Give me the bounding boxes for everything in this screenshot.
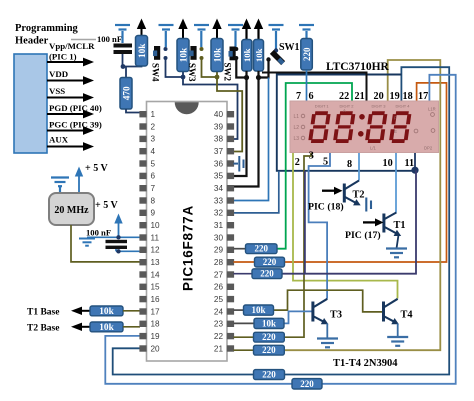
pin 30 [227,234,234,240]
svg-text:22: 22 [214,332,224,341]
svg-text:11: 11 [405,158,415,169]
svg-text:20: 20 [151,344,161,353]
resistor 10k chip pin24 [244,305,274,315]
svg-text:18: 18 [151,320,161,329]
pin 7 [139,185,146,191]
svg-text:220: 220 [262,332,276,342]
wire SW4 to pin38 [166,58,238,139]
pin 32 [227,210,234,216]
wire navy display pin11 stub [414,153,416,171]
svg-text:10k: 10k [242,48,252,62]
pin 10 [139,222,146,228]
wire resistor 220 chip pin28 left [234,261,255,263]
arrow +5V cap [118,222,120,237]
resistor R5 10k [242,40,252,72]
display LTC3710HR body [290,101,439,153]
pin 3 [139,136,146,142]
wire 10k1 bottom to node [123,66,142,67]
svg-text:16: 16 [151,295,161,304]
svg-text:T2: T2 [353,190,365,201]
wire olive 10k pin24 to T4 base [274,290,383,312]
svg-text:T3: T3 [330,310,342,321]
pin 12 [139,247,146,253]
pin 19 [139,333,146,339]
svg-text:28: 28 [214,258,224,267]
ground T4 [387,337,408,346]
svg-text:29: 29 [214,246,224,255]
svg-text:6: 6 [309,91,314,102]
svg-text:24: 24 [214,307,224,316]
svg-text:9: 9 [151,209,156,218]
pin 40 [227,111,234,117]
pin 9 [139,210,146,216]
svg-text:23: 23 [214,320,224,329]
pin 28 [227,259,234,265]
ground G2 SW4 [159,25,174,47]
svg-text:38: 38 [214,135,224,144]
switch SW3 [190,46,196,60]
wire steel-blue branch to chip pin32 [234,171,279,213]
svg-text:220: 220 [255,244,269,254]
transistor T2 [343,181,359,204]
wire resistor 220 chip pin27 left [234,273,253,275]
display digit 4 showing 8 [389,111,412,143]
node +5V/pin11 [116,235,120,239]
resistor R4 10k [211,39,223,72]
wire steel-blue display pin5 to T3 collector [309,153,330,299]
svg-text:35: 35 [214,172,224,181]
resistor R3 10k [177,39,189,72]
svg-text:DIGIT 4: DIGIT 4 [396,104,411,109]
capacitor C2 100nF [106,240,128,243]
svg-text:2: 2 [295,157,300,168]
node A junction [121,64,126,69]
svg-text:7: 7 [296,91,301,102]
capacitor 100nF top C1 [114,44,133,48]
svg-text:L2: L2 [294,125,300,131]
svg-text:10k: 10k [262,318,276,328]
svg-text:PIC (17): PIC (17) [345,230,381,241]
svg-text:6: 6 [151,172,156,181]
svg-text:30: 30 [214,233,224,242]
resistor R1 10k [136,36,148,67]
svg-text:36: 36 [214,159,224,168]
svg-text:26: 26 [214,283,224,292]
svg-text:PGD (PIC 40): PGD (PIC 40) [49,103,102,113]
pin 23 [227,321,234,327]
arrow +V above R3 [182,26,184,39]
wire navy box chip pin32 to display pin17b [277,75,415,171]
svg-text:SW2: SW2 [223,63,233,82]
label SW3 [187,63,197,82]
resistor 220 chip pin22 [254,332,285,342]
resistor R6 10k [254,40,264,72]
arrow +V above R6 [257,26,259,40]
pin 39 [227,123,234,129]
svg-text:L/1: L/1 [370,146,376,151]
svg-text:DIGIT 3: DIGIT 3 [372,104,387,109]
display colon [359,114,365,120]
pin 25 [227,296,234,302]
IC label PIC16F877A [181,205,196,291]
wire orange display pin18 loop to 220 pin28 [285,83,447,262]
transistor T1 [382,213,397,235]
pin 34 [227,185,234,191]
pin 2 [139,123,146,129]
resistor 220 chip pin21 [254,345,285,355]
svg-text:7: 7 [151,184,156,193]
svg-text:PIC16F877A: PIC16F877A [181,205,196,291]
arrow +V above R5 [245,26,247,40]
svg-text:32: 32 [214,209,224,218]
svg-text:+ 5 V: + 5 V [95,200,119,211]
pin 27 [227,271,234,277]
svg-text:8: 8 [347,159,352,170]
ground G5 SW1 [269,25,284,50]
resistor 220 chip pin28 [255,257,285,267]
arrow PIC17 into T1 base [363,221,377,223]
wire SW1 to R6 node [259,60,269,78]
svg-text:10k: 10k [214,47,224,62]
svg-text:220: 220 [302,47,312,61]
svg-text:10: 10 [151,221,161,230]
resistor 220 bottom blue line [292,379,322,389]
wire navy display pin19 loop to chip pin20 via 220 [113,67,450,374]
svg-text:10k: 10k [138,43,148,58]
arrow T1 base [80,310,90,312]
svg-text:20 MHz: 20 MHz [54,205,89,216]
wire SW1 blue to pin33 [234,78,269,201]
svg-text:22: 22 [339,91,349,102]
wire green display pin22 to 220 pin29 [277,83,352,249]
crystal X1 20 MHz [49,193,94,225]
pin 33 [227,197,234,203]
capacitor symbol at pin 36 [234,156,244,172]
pin 11 [139,234,146,240]
svg-text:3: 3 [309,151,314,162]
svg-text:5: 5 [323,157,328,168]
svg-text:20: 20 [374,91,384,102]
wire steel-blue 10k pin23 to T3 base [284,311,312,323]
pin 16 [139,296,146,302]
svg-text:1: 1 [151,110,156,119]
svg-text:15: 15 [151,283,161,292]
switch SW2 [230,47,236,61]
resistor 220 chip pin27 [252,269,282,279]
wire 10k to pin18 [123,326,140,328]
transistor T4 [382,299,398,323]
node SW2/R5 [244,75,249,80]
svg-text:DIGIT 1: DIGIT 1 [315,104,330,109]
wire 10k to pin17 [123,310,140,312]
pin 35 [227,173,234,179]
resistor R2 470 [125,67,127,79]
arrow AUX [47,146,85,148]
svg-text:100 nF: 100 nF [97,34,122,44]
node SW3/R4 [215,75,220,80]
svg-text:220: 220 [262,370,276,380]
svg-text:T1 Base: T1 Base [27,308,59,318]
svg-text:27: 27 [214,270,224,279]
svg-text:10k: 10k [180,47,190,62]
pin 14 [139,271,146,277]
wire olive display pin3 to 220 pin22 [284,153,311,338]
display digit 1 showing 8 [308,111,331,143]
wire resistor 10k chip pin24 left [234,309,244,311]
svg-text:L1R: L1R [428,107,436,112]
ground crystal [51,178,69,194]
svg-text:4: 4 [151,147,156,156]
wire R5 black to pin35 and display dot [234,71,247,176]
pin 37 [227,148,234,154]
node SW4/R3 [181,75,186,80]
wire resistor 10k chip pin23 left [234,322,255,324]
svg-text:220: 220 [300,379,314,389]
svg-text:100 nF: 100 nF [86,228,111,238]
pin 29 [227,247,234,253]
wire blue display pin17 loop to chip pin19 via 220 [105,75,455,384]
pin 24 [227,308,234,314]
pin 8 [139,197,146,203]
pin 4 [139,148,146,154]
svg-text:34: 34 [214,184,224,193]
wire light-blue display pin10 to T1 collector [395,153,397,213]
svg-text:39: 39 [214,122,224,131]
svg-text:SW1: SW1 [279,42,300,53]
svg-text:E: E [394,129,397,134]
svg-text:PIC (18): PIC (18) [308,202,344,213]
svg-text:13: 13 [151,258,161,267]
pin 13 [139,259,146,265]
svg-text:DP2: DP2 [424,146,433,151]
ground rotated at T2 emitter [366,198,371,212]
wire +5V rail to pin11 [87,236,140,238]
wire 220 to display pin7 [306,70,308,101]
svg-text:10k: 10k [251,305,265,315]
pin 36 [227,160,234,166]
arrow +V above R1 [141,26,143,36]
svg-text:+ 5 V: + 5 V [85,163,109,174]
IC notch [175,102,199,114]
pin 22 [227,333,234,339]
pin 1 [139,111,146,117]
ground T3 [317,339,338,348]
svg-text:PGC (PIC 39): PGC (PIC 39) [49,120,102,130]
ground cap2 [79,239,95,246]
wire gray stub near 100nF [71,39,96,41]
pin 38 [227,136,234,142]
svg-text:19: 19 [390,91,400,102]
arrow Vpp/MCLR [47,61,85,63]
svg-text:10k: 10k [99,307,114,317]
wire resistor 220 chip pin29 left [234,248,246,250]
svg-text:10: 10 [383,158,393,169]
wire resistor 220 chip pin22 left [234,336,254,338]
display digit 3 showing 8 [365,111,388,143]
svg-text:T1-T4 2N3904: T1-T4 2N3904 [333,358,398,369]
svg-text:AUX: AUX [49,135,69,145]
svg-text:L3: L3 [294,136,300,142]
svg-text:11: 11 [151,233,160,242]
resistor 220 bottom navy line [254,370,285,380]
arrow PGD [47,113,85,115]
svg-text:T4: T4 [401,310,413,321]
pin 6 [139,173,146,179]
node pin11 junction dot [411,167,418,174]
wire resistor 220 chip pin21 left [234,349,254,351]
svg-text:14: 14 [151,270,161,279]
wire navy T1T2 box from 220 pin27 [282,170,416,274]
resistor R7 220 [301,39,313,71]
svg-text:40: 40 [214,110,224,119]
wire cap to pin12 [115,249,117,251]
pin 31 [227,222,234,228]
arrow VDD [47,80,85,82]
wire crystal to pin13 olive [71,225,140,262]
svg-text:31: 31 [214,221,224,230]
wire cap to node [122,54,124,67]
ground G6 above 220 [299,25,314,39]
pin 21 [227,345,234,351]
wire R6 black to pin34 and display pin2 [234,71,259,187]
label SW2 [223,63,233,82]
arrow VSS [47,97,85,99]
pin 26 [227,284,234,290]
svg-text:Vpp/MCLR: Vpp/MCLR [49,41,95,51]
display digit 2 showing 8 [333,111,356,143]
svg-text:VDD: VDD [49,69,68,79]
svg-text:12: 12 [151,246,161,255]
arrow T2 base [80,326,90,328]
svg-text:3: 3 [151,135,156,144]
svg-text:19: 19 [151,332,161,341]
svg-text:25: 25 [214,295,224,304]
ground T1 [386,249,407,258]
pin 18 [139,321,146,327]
wire SW3 to pin37 olive [202,58,243,152]
pin 17 [139,308,146,314]
svg-text:SW4: SW4 [151,63,161,82]
arrow +V above R4 [216,26,218,39]
ground G3 SW3 [194,25,209,47]
arrow PGC [47,130,85,132]
svg-text:T2 Base: T2 Base [27,324,59,334]
pin 20 [139,345,146,351]
arrow PIC18 into T2 base [322,190,336,192]
display misc marks [431,113,435,117]
resistor 10k T1 base [90,306,123,316]
svg-text:220: 220 [263,257,277,267]
resistor 10k chip pin23 [254,318,284,328]
svg-text:2: 2 [151,122,156,131]
svg-text:Header: Header [15,36,49,47]
resistor 10k T2 base [90,322,123,332]
pin 15 [139,284,146,290]
wire navy T1T2 box left side [304,171,306,274]
resistor 220 chip pin29 [246,244,278,254]
wire olive-gold display pin20 loop to 220 pin21 [284,60,440,350]
svg-text:L1: L1 [294,114,300,120]
wire SW2 to R5 [236,58,246,78]
svg-text:17: 17 [418,91,428,102]
svg-text:T1: T1 [394,220,406,231]
wire yellow-green display pin2 to T4 collector [293,153,398,299]
svg-text:DIGIT 2: DIGIT 2 [340,104,355,109]
svg-text:8: 8 [151,196,156,205]
svg-text:LTC3710HR: LTC3710HR [326,61,390,73]
svg-text:18: 18 [403,91,413,102]
programming header connector J1 [14,54,47,153]
svg-text:33: 33 [214,196,224,205]
svg-text:(PIC 1): (PIC 1) [49,52,77,62]
switch SW1 diagonal [274,48,278,52]
ground G4 SW2 [228,25,243,48]
svg-text:A: A [343,108,346,113]
label SW4 [151,63,161,82]
svg-text:220: 220 [260,269,274,279]
switch SW4 [154,46,160,60]
transistor T3 [311,299,327,323]
wire light-blue display pin8 to T2 collector [358,153,360,181]
svg-text:470: 470 [123,86,133,100]
svg-text:5: 5 [151,159,156,168]
svg-text:10k: 10k [99,323,114,333]
svg-text:37: 37 [214,147,224,156]
svg-text:10k: 10k [254,48,264,62]
svg-text:Programming: Programming [15,23,79,34]
svg-text:F: F [394,116,397,121]
svg-text:21: 21 [355,91,365,102]
wire 470 to pin1 [126,109,140,113]
wire SW1 black to display pin21 [262,73,367,102]
arrow +5V crystal [78,175,80,193]
ground G1 [115,25,130,43]
svg-text:21: 21 [214,344,224,353]
pin 5 [139,160,146,166]
svg-text:SW3: SW3 [187,63,197,82]
node cap/pin12 [116,249,120,253]
svg-text:17: 17 [151,307,161,316]
svg-text:VSS: VSS [49,86,65,96]
svg-text:220: 220 [262,345,276,355]
IC U1 PIC16F877A body [147,102,228,362]
